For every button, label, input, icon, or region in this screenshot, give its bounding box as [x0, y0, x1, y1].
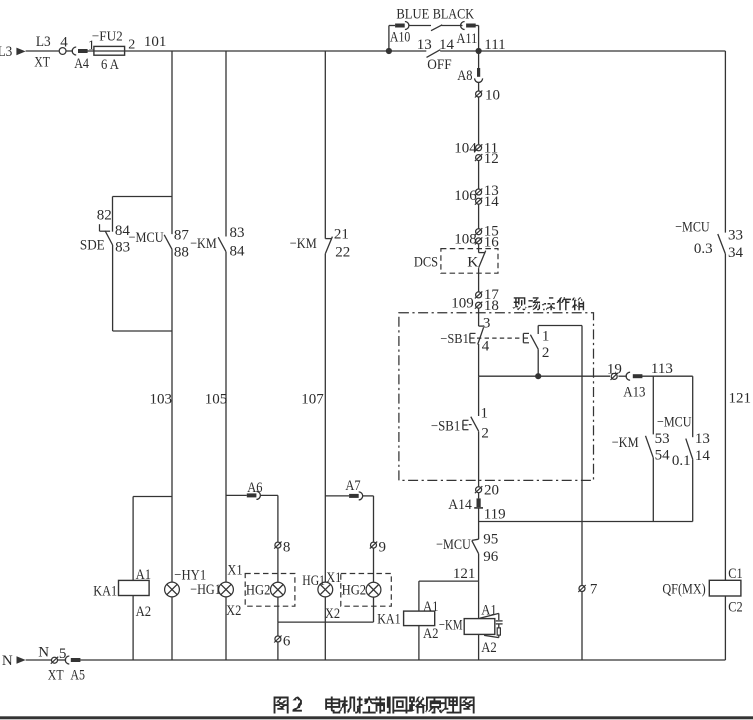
- wire KM 53 branch from 113 wire: [652, 376, 654, 434]
- svg-text:SDE: SDE: [80, 238, 105, 254]
- pushbutton E contact 1-2: [523, 328, 549, 360]
- indicator lamp HG2 (second): [342, 582, 381, 598]
- wire right column from bus: [724, 51, 726, 233]
- label L3 / XT: [34, 34, 51, 71]
- svg-text:7: 7: [590, 581, 598, 597]
- svg-text:A6: A6: [247, 480, 263, 496]
- svg-text:L3: L3: [0, 44, 12, 60]
- svg-text:−FU2: −FU2: [92, 29, 123, 44]
- contactor coil KM pins A1-A2: [439, 602, 497, 656]
- svg-text:−SB1: −SB1: [440, 332, 468, 347]
- timer contact MCU 33-34 0.3: [675, 220, 743, 261]
- breaker fault contact SDE pins 84-83: [80, 223, 130, 256]
- wire column 103 from bus: [171, 51, 173, 234]
- relay coil KA1 pins A1-A2: [377, 599, 438, 642]
- svg-text:X1: X1: [227, 562, 242, 578]
- connector A7: [345, 478, 362, 500]
- svg-text:A11: A11: [457, 31, 478, 47]
- svg-text:−KM: −KM: [439, 618, 463, 634]
- svg-text:33: 33: [728, 228, 743, 244]
- svg-text:−KM: −KM: [190, 236, 217, 252]
- svg-text:14: 14: [695, 448, 711, 464]
- svg-text:N: N: [2, 653, 13, 669]
- svg-text:12: 12: [484, 151, 499, 167]
- svg-text:121: 121: [729, 390, 752, 406]
- connector A6: [247, 480, 263, 500]
- wire A8 to terminal 10: [478, 82, 480, 90]
- svg-text:53: 53: [655, 431, 670, 447]
- terminal 8: [274, 539, 290, 555]
- wire lamp HG1 second to N bus: [324, 597, 326, 660]
- local lamp box HG2 dashed enclosure (second): [341, 574, 392, 607]
- svg-text:X2: X2: [325, 606, 340, 622]
- svg-text:20: 20: [484, 482, 499, 498]
- wire connector A4 to fuse FU2: [87, 50, 94, 52]
- wire terminal 8 to lamp HG2: [277, 548, 279, 582]
- suppressor on coil KM: [480, 613, 503, 637]
- wire 119 to contact MCU 95-96: [478, 522, 480, 540]
- wire K contact to terminal 17: [478, 268, 480, 292]
- svg-text:10: 10: [485, 88, 500, 104]
- svg-text:HG1: HG1: [302, 573, 325, 589]
- svg-text:6: 6: [283, 633, 291, 649]
- wire A10 to switch: [409, 25, 431, 27]
- svg-text:−KM: −KM: [612, 435, 639, 451]
- connector A13: [623, 372, 645, 401]
- wire coil KA1 left to N bus: [132, 596, 134, 661]
- connector A11: [457, 22, 478, 47]
- indicator lamp HG2 (first): [246, 582, 285, 598]
- wire connector A14 to node 119: [479, 507, 506, 523]
- svg-text:X1: X1: [326, 570, 341, 586]
- terminal 10: [475, 88, 500, 104]
- svg-text:121: 121: [453, 566, 476, 582]
- wire branch X82 down through op-box: [581, 326, 583, 586]
- label node 113: [651, 361, 673, 377]
- wire A7 to lamp branch corner: [363, 496, 374, 542]
- svg-text:HG2: HG2: [246, 583, 271, 599]
- label BLACK: [433, 6, 475, 22]
- connector A10: [390, 22, 410, 46]
- wire E contact to junction: [537, 349, 539, 376]
- terminal 13 and terminal 14 node 106: [454, 183, 499, 210]
- node junction dot 111: [476, 48, 482, 54]
- fuse FU2 6A pins 1-2: [88, 29, 135, 73]
- svg-text:A2: A2: [136, 604, 152, 620]
- mechanical link dashed SB1E to E: [477, 337, 522, 339]
- svg-text:−MCU: −MCU: [436, 537, 471, 553]
- node junction dot in op-box: [535, 373, 541, 379]
- wire node 103: [150, 249, 173, 582]
- DCS dashed enclosure: [414, 249, 498, 274]
- svg-text:3: 3: [483, 315, 491, 331]
- svg-text:96: 96: [483, 549, 499, 565]
- svg-text:82: 82: [97, 208, 112, 224]
- wire node 121 right column: [725, 254, 751, 580]
- svg-text:88: 88: [174, 245, 189, 261]
- label BLUE: [396, 6, 429, 22]
- svg-text:BLUE: BLUE: [396, 6, 429, 22]
- svg-text:13: 13: [417, 37, 432, 53]
- wire column 107 from bus: [324, 51, 326, 239]
- switch OFF pins 13-14 on bus: [417, 37, 455, 73]
- indicator lamp HG1 with terminals X1 X2: [190, 562, 242, 619]
- svg-text:A2: A2: [481, 640, 497, 656]
- svg-text:BLACK: BLACK: [433, 6, 475, 22]
- connector A4: [72, 47, 89, 72]
- svg-text:13: 13: [695, 431, 710, 447]
- relay coil KA1 pins A1-A2 (left): [93, 567, 151, 620]
- svg-text:0.3: 0.3: [694, 241, 713, 257]
- indicator lamp HG1 (second) with terminals X1 X2: [302, 570, 341, 622]
- timer contact MCU 13-14 0.1: [657, 414, 710, 468]
- wire 121 to contactor coil KM: [478, 581, 480, 619]
- auxiliary contact KM 83-84: [190, 225, 245, 259]
- wire SB1E 4 down to tee: [478, 344, 480, 376]
- svg-text:A14: A14: [448, 497, 472, 513]
- svg-text:2: 2: [481, 425, 489, 441]
- connector A14: [448, 493, 483, 513]
- wire SDE 83 back to column 103: [113, 245, 172, 331]
- wire KM 54 to node 119: [652, 458, 654, 522]
- terminal XT pin 5: [51, 646, 67, 664]
- svg-text:101: 101: [144, 34, 167, 50]
- auxiliary contact KM 21-22 (NC): [290, 226, 351, 260]
- svg-text:XT: XT: [34, 54, 50, 70]
- auxiliary contact MCU 87-88: [129, 228, 190, 261]
- wire switch to connector A11: [441, 25, 462, 27]
- svg-text:4: 4: [60, 35, 68, 51]
- svg-text:A4: A4: [74, 56, 89, 72]
- net L3 feeder arrow: [0, 44, 26, 60]
- svg-text:KA1: KA1: [377, 611, 400, 627]
- svg-text:KA1: KA1: [93, 583, 117, 599]
- overload contact MCU 95-96: [436, 532, 499, 566]
- svg-text:A13: A13: [623, 385, 645, 401]
- svg-text:A1: A1: [136, 567, 152, 583]
- wire top bus right section node 111: [440, 37, 725, 53]
- svg-text:87: 87: [174, 228, 190, 244]
- svg-text:54: 54: [655, 447, 671, 463]
- net N feeder arrow: [2, 653, 26, 669]
- terminal stub 82 of SDE: [97, 208, 112, 232]
- svg-text:K: K: [467, 254, 478, 270]
- wire terminal 16 to DCS contact: [478, 244, 480, 252]
- wire branch A6 tap: [226, 494, 247, 496]
- auxiliary contact KM 53-54: [612, 431, 670, 464]
- wire lamp HG2 to tee: [277, 597, 279, 622]
- wire terminal 6 to N bus: [277, 642, 279, 660]
- svg-text:8: 8: [283, 539, 291, 555]
- svg-text:L3: L3: [36, 34, 51, 50]
- svg-text:119: 119: [484, 507, 506, 523]
- svg-text:95: 95: [483, 532, 498, 548]
- terminal 9: [370, 539, 386, 555]
- wire branch A7 tap: [325, 495, 349, 497]
- svg-text:103: 103: [150, 391, 173, 407]
- wire tee to terminal 6: [277, 622, 279, 636]
- terminal 20: [475, 482, 499, 498]
- wire node 119 to right branches: [479, 521, 693, 523]
- wire coil KM to N bus: [478, 634, 480, 660]
- svg-text:X2: X2: [226, 603, 241, 619]
- indicator lamp HY1: [165, 568, 207, 597]
- wire N to terminal XT:5: [26, 644, 52, 660]
- svg-text:A10: A10: [390, 29, 410, 45]
- wire branch to SDE contact: [113, 197, 173, 232]
- svg-text:1: 1: [542, 328, 550, 344]
- connector A8: [457, 68, 482, 84]
- bottom rule bar: [0, 716, 753, 719]
- svg-text:2: 2: [542, 345, 550, 361]
- svg-text:105: 105: [205, 391, 228, 407]
- label 现场操作箱 (field operating box): [512, 297, 584, 310]
- wire column 105 from bus: [225, 51, 227, 237]
- wire terminal 4 to connector A4: [66, 50, 73, 52]
- wire A11 branch down to node 111: [476, 26, 479, 52]
- svg-text:106: 106: [454, 188, 477, 204]
- terminal 7: [578, 581, 598, 597]
- wire tee to node 113 via terminal 19: [479, 375, 693, 377]
- svg-text:HG2: HG2: [342, 583, 367, 599]
- svg-text:N: N: [38, 644, 49, 660]
- svg-text:A2: A2: [423, 626, 439, 642]
- svg-text:−KM: −KM: [290, 236, 317, 252]
- wire branch to relay KA1 coil (left): [133, 497, 172, 581]
- wire terminal 18 to button SB1E contact 3-4: [478, 309, 480, 327]
- svg-text:C1: C1: [728, 566, 742, 582]
- wire node 107: [301, 254, 325, 582]
- switch blade in bypass branch: [431, 25, 442, 31]
- svg-text:A8: A8: [457, 68, 472, 84]
- wire coil QF to N bus corner: [724, 596, 726, 660]
- svg-text:111: 111: [484, 37, 505, 53]
- wire lamp HG2 second to tee: [373, 597, 375, 622]
- svg-text:−SB1: −SB1: [431, 419, 460, 435]
- wire lamp-return tee bar: [278, 621, 374, 623]
- wire node 101 top bus left section: [125, 34, 427, 51]
- svg-text:109: 109: [451, 296, 474, 312]
- wire SB1E 2 to terminal 20: [478, 431, 480, 486]
- svg-text:34: 34: [728, 245, 744, 261]
- svg-text:DCS: DCS: [414, 255, 438, 271]
- terminal 11 and terminal 12 node 104: [454, 141, 498, 167]
- wire MCU 14 to node 119: [692, 459, 694, 521]
- svg-text:4: 4: [482, 339, 490, 355]
- wire 111 down to connector A8: [478, 51, 480, 68]
- label XT / A5: [48, 667, 85, 683]
- wire node 121 to KA1 branch: [419, 580, 479, 582]
- wire SB1E contact 1-2 top stub: [478, 376, 480, 416]
- wire MCU 96 to node 121: [453, 554, 479, 582]
- wire terminal 7 to N bus: [581, 592, 583, 660]
- svg-text:−MCU: −MCU: [129, 230, 164, 246]
- wire down to relay coil KA1: [418, 581, 420, 611]
- svg-text:113: 113: [651, 361, 673, 377]
- svg-text:A1: A1: [423, 599, 439, 615]
- terminal 6: [274, 633, 291, 649]
- wire terminal 10 to terminal 11: [478, 97, 480, 144]
- svg-text:1: 1: [481, 406, 489, 422]
- wire lamp HY1 to N bus: [171, 597, 173, 660]
- svg-text:−HY1: −HY1: [174, 568, 206, 584]
- svg-text:−HG1: −HG1: [190, 582, 221, 598]
- svg-text:9: 9: [379, 539, 387, 555]
- svg-text:18: 18: [484, 298, 499, 314]
- field operating box dash-dot enclosure: [399, 313, 594, 481]
- svg-text:19: 19: [607, 361, 622, 377]
- svg-text:OFF: OFF: [427, 57, 451, 73]
- svg-text:21: 21: [334, 226, 349, 242]
- svg-text:104: 104: [454, 141, 477, 157]
- wire A6 to lamp branch corner: [260, 495, 278, 541]
- svg-text:6 A: 6 A: [101, 57, 119, 73]
- release coil QF(MX) pins C1-C2: [662, 566, 742, 615]
- wire 113 corner down (MCU 13 branch): [692, 376, 694, 437]
- svg-text:83: 83: [230, 225, 245, 241]
- svg-text:A5: A5: [70, 667, 85, 683]
- caption 图 2 电机控制回路原理图: [274, 697, 475, 714]
- terminal 19: [607, 361, 622, 380]
- terminal 17 and terminal 18 node 109: [451, 287, 499, 314]
- pushbutton SB1E contact 3-4: [440, 315, 490, 354]
- relay contact K (DCS): [467, 251, 485, 271]
- wire terminal 14 to terminal 15: [478, 204, 480, 228]
- wire terminal 9 to lamp HG2 second: [373, 548, 375, 582]
- svg-text:A7: A7: [345, 478, 361, 494]
- wire lamp HG1 to N bus: [225, 597, 227, 660]
- wire branch up-left of OFF bypass: [389, 26, 395, 52]
- connector A5: [58, 656, 81, 664]
- svg-text:QF(MX): QF(MX): [662, 581, 705, 597]
- svg-text:−MCU: −MCU: [657, 414, 692, 430]
- svg-text:XT: XT: [48, 667, 64, 683]
- terminal XT pin 4: [59, 35, 68, 55]
- svg-text:108: 108: [454, 231, 477, 247]
- svg-text:C2: C2: [728, 599, 742, 615]
- svg-text:84: 84: [230, 243, 246, 259]
- wire L3 to terminal XT:4: [26, 50, 60, 52]
- svg-text:14: 14: [484, 194, 500, 210]
- local lamp box HG2 dashed enclosure: [245, 574, 295, 607]
- wire N bus: [80, 659, 725, 661]
- svg-text:107: 107: [301, 391, 324, 407]
- wire terminal 12 to terminal 13: [478, 161, 480, 189]
- svg-text:22: 22: [335, 244, 350, 260]
- wire coil KA1 to N bus: [418, 626, 420, 660]
- wire from op-box top to remote contact E: [538, 326, 582, 335]
- wire node 105: [205, 252, 228, 582]
- svg-text:0.1: 0.1: [672, 453, 691, 469]
- terminal 15 and terminal 16 node 108: [454, 224, 499, 251]
- node junction dot at A10 branch: [386, 48, 392, 54]
- svg-text:−MCU: −MCU: [675, 220, 710, 236]
- pushbutton SB1E contact 1-2: [431, 406, 489, 442]
